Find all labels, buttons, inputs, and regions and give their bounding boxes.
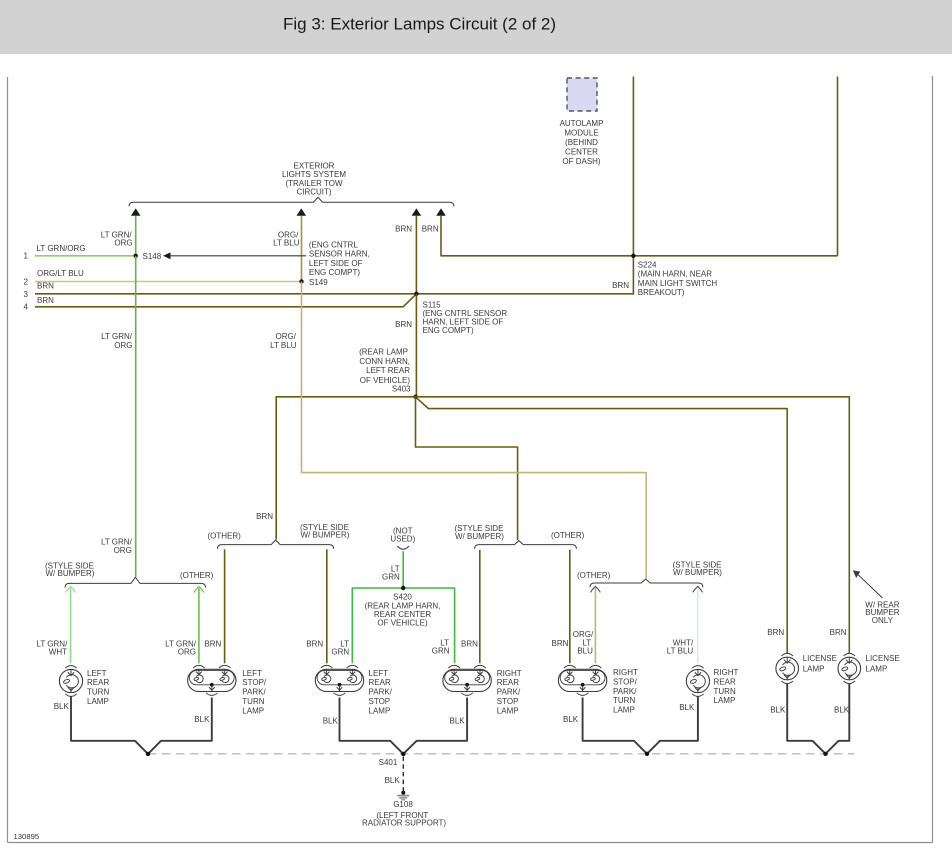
wire BRN: brace arrow down, corner east to S224 — [441, 216, 838, 256]
svg-text:BRN: BRN — [37, 282, 54, 291]
splice S148 — [134, 252, 162, 261]
svg-text:BRN: BRN — [395, 320, 412, 329]
svg-text:3: 3 — [24, 290, 29, 299]
wire LT GRN/ORG: brace arrow down to S148 — [135, 216, 137, 256]
svg-text:USED): USED) — [390, 534, 415, 543]
svg-text:BRN: BRN — [256, 512, 273, 521]
svg-text:BRN: BRN — [767, 628, 784, 637]
wire BRN: S403 second east leg to left license lamp — [417, 398, 787, 653]
svg-text:BLK: BLK — [385, 776, 401, 785]
label BLK lamp2 — [194, 715, 210, 724]
svg-text:LEFT: LEFT — [369, 669, 389, 678]
svg-text:LIGHTS SYSTEM: LIGHTS SYSTEM — [282, 170, 346, 179]
svg-text:LAMP: LAMP — [714, 696, 736, 705]
lamp: LEFT STOP/PARK/TURN LAMP — [188, 665, 267, 715]
svg-text:TURN: TURN — [613, 696, 635, 705]
splice S115 — [414, 292, 507, 335]
lamp: LEFT REAR TURN LAMP — [59, 666, 109, 706]
wire BRN: left brace to LEFT REAR PARK/STOP lamp — [326, 549, 328, 663]
wire line 2 ORG/LT BLU — [35, 269, 299, 281]
svg-text:RIGHT: RIGHT — [497, 669, 522, 678]
label LT GRN/ORG (vertical wire at S148) — [101, 231, 133, 248]
svg-text:REAR: REAR — [714, 677, 736, 686]
svg-text:SENSOR HARN,: SENSOR HARN, — [309, 250, 370, 259]
svg-text:LAMP: LAMP — [866, 665, 888, 674]
label BLK lamp1 — [54, 702, 70, 711]
svg-text:GRN: GRN — [432, 646, 450, 655]
arrow+wire WHT/LT BLU to RIGHT REAR TURN lamp — [693, 586, 703, 663]
label WHT/LT BLU (lamp6) — [667, 639, 694, 656]
label BRN (wire into left brace) — [256, 512, 273, 521]
svg-text:BRN: BRN — [422, 224, 439, 233]
wire ORG/LT BLU: S149 down, east, down to right brace — [302, 282, 647, 579]
svg-text:EXTERIOR: EXTERIOR — [294, 161, 335, 170]
svg-text:W/ BUMPER): W/ BUMPER) — [301, 530, 350, 539]
svg-text:BLK: BLK — [450, 716, 466, 725]
wire BRN: left brace to LEFT STOP/PARK/TURN lamp — [224, 549, 226, 663]
svg-text:ORG/: ORG/ — [276, 332, 297, 341]
wire BRN: S224 vertical (module area down to BRN bus line 3) — [632, 77, 634, 295]
lamp: RIGHT STOP/PARK/TURN LAMP — [558, 665, 638, 714]
svg-text:BRN: BRN — [830, 628, 847, 637]
svg-text:LAMP: LAMP — [613, 706, 635, 715]
BLK wires license lamps to junction — [787, 683, 849, 756]
svg-text:(ENG CNTRL: (ENG CNTRL — [309, 241, 358, 250]
arrow up into brace (LT GRN/ORG wire) — [131, 208, 141, 215]
svg-text:MAIN LIGHT SWITCH: MAIN LIGHT SWITCH — [638, 279, 718, 288]
lamp: LEFT REAR PARK/STOP LAMP — [315, 665, 392, 715]
svg-text:LAMP: LAMP — [87, 697, 109, 706]
svg-text:LT BLU: LT BLU — [273, 238, 300, 247]
svg-text:BRN: BRN — [204, 640, 221, 649]
arrow up into brace (ORG/LT BLU wire) — [297, 208, 307, 215]
label ORG/LT BLU (mid vertical) — [270, 332, 297, 350]
svg-text:2: 2 — [24, 277, 29, 286]
svg-text:Fig 3: Exterior Lamps Circuit: Fig 3: Exterior Lamps Circuit (2 of 2) — [283, 15, 556, 34]
label LT GRN (lamp3) — [331, 640, 349, 657]
label BRN (S115 to S403 wire) — [395, 320, 412, 329]
node 1 — [24, 252, 29, 261]
label BRN (S115 riser) — [395, 224, 412, 233]
brace: ORG/LT BLU split (OTHER / STYLE SIDE W BUMPER) — [577, 561, 722, 588]
arrow up into brace (BRN wire from S224) — [436, 208, 446, 215]
label ORG/LT BLU (vertical wire at S149) — [273, 231, 300, 248]
ground symbol G108 — [397, 791, 409, 800]
brace: EXTERIOR LIGHTS SYSTEM (TRAILER TOW CIRCUIT) — [129, 161, 454, 206]
svg-text:AUTOLAMP: AUTOLAMP — [560, 119, 604, 128]
node 2 — [24, 277, 29, 286]
node 3 — [24, 290, 29, 299]
title bar — [0, 0, 952, 54]
svg-text:130895: 130895 — [14, 832, 40, 841]
wire BRN: brace arrow down to S115 — [415, 216, 417, 294]
svg-text:REAR: REAR — [497, 678, 519, 687]
label BLK lamp6 — [679, 703, 695, 712]
svg-text:LAMP: LAMP — [242, 706, 264, 715]
wire line 1 LT GRN/ORG — [35, 244, 134, 256]
svg-text:LEFT SIDE OF: LEFT SIDE OF — [309, 259, 363, 268]
svg-text:REAR: REAR — [87, 678, 109, 687]
label (ENG CNTRL SENSOR HARN, LEFT SIDE OF ENG COMPT) for S149 — [309, 241, 370, 278]
svg-text:RADIATOR SUPPORT): RADIATOR SUPPORT) — [362, 819, 446, 828]
svg-text:S149: S149 — [309, 278, 328, 287]
svg-text:(TRAILER TOW: (TRAILER TOW — [285, 179, 342, 188]
svg-text:REAR: REAR — [369, 678, 391, 687]
svg-text:BLK: BLK — [323, 716, 339, 725]
svg-text:RIGHT: RIGHT — [714, 668, 739, 677]
svg-text:BLK: BLK — [834, 705, 850, 714]
arrow+wire LT GRN/WHT to LEFT REAR TURN lamp — [66, 587, 76, 664]
svg-text:ORG: ORG — [114, 546, 132, 555]
svg-text:LEFT: LEFT — [242, 669, 262, 678]
wire BRN: S403 west leg down to left brace — [276, 397, 415, 540]
svg-text:LEFT REAR: LEFT REAR — [366, 366, 410, 375]
svg-text:S401: S401 — [379, 758, 398, 767]
splice S403 (REAR LAMP CONN HARN, LEFT REAR OF VEHICLE) — [359, 347, 418, 399]
annotation arrow W/ REAR BUMPER ONLY — [853, 570, 900, 625]
svg-text:LICENSE: LICENSE — [866, 654, 900, 663]
svg-text:LT GRN/: LT GRN/ — [101, 332, 133, 341]
wire BRN: brace to RIGHT REAR PARK/STOP lamp — [479, 550, 481, 664]
svg-text:LICENSE: LICENSE — [803, 654, 837, 663]
label BRN (right license lamp) — [830, 628, 847, 637]
svg-text:BLU: BLU — [577, 647, 593, 656]
svg-text:PARK/: PARK/ — [613, 687, 637, 696]
lamp: RIGHT REAR PARK/STOP LAMP — [443, 665, 522, 715]
svg-text:BRN: BRN — [395, 224, 412, 233]
svg-text:CIRCUIT): CIRCUIT) — [296, 188, 331, 197]
svg-text:MODULE: MODULE — [564, 129, 598, 138]
svg-text:(REAR LAMP: (REAR LAMP — [359, 347, 408, 356]
label LT GRN (not used stub) — [382, 565, 400, 582]
arrow to S148 from eng cntrl sensor harn — [163, 252, 306, 259]
svg-text:S148: S148 — [143, 252, 162, 261]
svg-text:(OTHER): (OTHER) — [208, 532, 242, 541]
svg-text:W/ BUMPER): W/ BUMPER) — [455, 532, 504, 541]
svg-text:BLK: BLK — [194, 715, 210, 724]
svg-text:(OTHER): (OTHER) — [577, 571, 611, 580]
svg-text:G108: G108 — [393, 800, 413, 809]
svg-text:BLK: BLK — [679, 703, 695, 712]
svg-text:RIGHT: RIGHT — [613, 668, 638, 677]
label G108 (LEFT FRONT RADIATOR SUPPORT) — [362, 800, 446, 827]
brace: LEFT STOP lamp split (OTHER / STYLE SIDE W BUMPER) — [208, 523, 350, 549]
autolamp module (dashed box) — [560, 78, 604, 166]
wire BRN: S403 east leg to right license lamp — [416, 397, 850, 654]
svg-text:LT GRN/ORG: LT GRN/ORG — [37, 244, 86, 253]
svg-text:4: 4 — [24, 302, 29, 311]
svg-text:1: 1 — [24, 252, 29, 261]
wire line 3 BRN (to S115 and on to S224 drop) — [35, 282, 633, 294]
label LT GRN/ORG (above lower brace) — [101, 538, 133, 555]
wire LT GRN stub down to S420 — [402, 551, 404, 588]
label BLK license right — [834, 705, 850, 714]
svg-text:CENTER: CENTER — [565, 148, 598, 157]
svg-text:GRN: GRN — [382, 573, 400, 582]
splice S224 — [631, 254, 717, 298]
svg-text:LT BLU: LT BLU — [270, 341, 297, 350]
svg-text:ENG COMPT): ENG COMPT) — [423, 326, 474, 335]
svg-text:ENG COMPT): ENG COMPT) — [309, 268, 360, 277]
wire LT GRN: S420 cross to both park/stop lamps — [352, 588, 454, 663]
not used stub terminal — [390, 526, 415, 549]
svg-text:ORG: ORG — [114, 341, 132, 350]
wire line 4 BRN joining S115 — [35, 294, 416, 307]
svg-text:S224: S224 — [638, 260, 657, 269]
svg-text:BRN: BRN — [37, 296, 54, 305]
splice S420 (REAR LAMP HARN, REAR CENTER OF VEHICLE) — [365, 586, 441, 628]
svg-text:TURN: TURN — [714, 687, 736, 696]
brace: RIGHT REAR PARK lamp split (STYLE SIDE W BUMPER / OTHER) — [455, 524, 585, 549]
BLK wires lamps 3-4 to S401 — [340, 698, 468, 754]
brace: LT GRN split (STYLE SIDE W BUMPER / OTHER) — [45, 561, 214, 587]
dashed ground bus — [148, 753, 854, 755]
svg-text:ORG: ORG — [114, 238, 132, 247]
svg-text:BLK: BLK — [563, 715, 579, 724]
label BRN (left license lamp) — [767, 628, 784, 637]
svg-text:PARK/: PARK/ — [242, 688, 266, 697]
arrow+wire ORG/LT BLU to RIGHT STOP/PARK/TURN lamp — [591, 586, 601, 663]
wire BRN: S115 down to S403 — [415, 294, 417, 397]
svg-text:BLK: BLK — [54, 702, 70, 711]
svg-text:ORG/LT BLU: ORG/LT BLU — [37, 269, 84, 278]
wire LT GRN/ORG: S148 down to green brace — [135, 256, 137, 577]
label BLK (ground wire) — [385, 776, 401, 785]
svg-text:(OTHER): (OTHER) — [551, 531, 585, 540]
label LT GRN/ORG (lamp2) — [165, 640, 197, 657]
label BRN (below S224) — [612, 281, 629, 290]
label BRN (lamp2) — [204, 640, 221, 649]
svg-text:LAMP: LAMP — [369, 706, 391, 715]
label BRN (lamp3) — [306, 640, 323, 649]
label BRN (lamp5) — [552, 639, 569, 648]
label LT GRN/ORG (mid vertical) — [101, 332, 133, 350]
splice S401 — [379, 752, 406, 768]
svg-text:S420: S420 — [393, 592, 412, 601]
label ORG/LT BLU (lamp5) — [573, 630, 594, 655]
label BLK lamp5 — [563, 715, 579, 724]
BLK wires lamps 5-6 to junction — [583, 696, 698, 756]
svg-text:PARK/: PARK/ — [369, 688, 393, 697]
node 4 — [24, 302, 29, 311]
svg-text:WHT: WHT — [49, 648, 67, 657]
svg-text:OF VEHICLE): OF VEHICLE) — [377, 618, 428, 627]
svg-text:STOP/: STOP/ — [613, 677, 638, 686]
svg-text:OF DASH): OF DASH) — [562, 157, 601, 166]
svg-text:(MAIN HARN, NEAR: (MAIN HARN, NEAR — [638, 270, 712, 279]
splice S149 — [299, 278, 328, 287]
svg-text:STOP: STOP — [497, 697, 519, 706]
svg-text:BRN: BRN — [306, 640, 323, 649]
svg-text:(OTHER): (OTHER) — [180, 571, 214, 580]
svg-text:CONN HARN,: CONN HARN, — [359, 357, 410, 366]
svg-text:PARK/: PARK/ — [497, 688, 521, 697]
wire BRN: brace to RIGHT STOP/PARK/TURN lamp — [569, 550, 571, 664]
svg-text:STOP: STOP — [369, 697, 391, 706]
BLK dashed wire S401 to ground — [402, 757, 404, 792]
arrow up into brace (BRN wire from S115) — [412, 208, 422, 215]
svg-text:BRN: BRN — [552, 639, 569, 648]
label BLK lamp4 — [450, 716, 466, 725]
wire ORG/LT BLU: brace arrow down to S149 — [301, 216, 303, 282]
label LT GRN (lamp4) — [432, 639, 450, 656]
arrow+wire LT GRN/ORG to LEFT STOP/PARK/TURN lamp — [194, 587, 204, 664]
label BRN (lamp4) — [461, 640, 478, 649]
lamp: RIGHT REAR TURN LAMP — [686, 666, 738, 706]
svg-text:W/ BUMPER): W/ BUMPER) — [46, 569, 95, 578]
svg-text:ORG: ORG — [178, 648, 196, 657]
svg-text:LAMP: LAMP — [803, 665, 825, 674]
svg-text:BREAKOUT): BREAKOUT) — [638, 288, 685, 297]
lamp: LICENSE LAMP (right) — [838, 653, 900, 683]
wire BRN: right riser up from S224 bus — [837, 77, 839, 256]
svg-text:STOP/: STOP/ — [242, 678, 267, 687]
svg-text:S403: S403 — [392, 385, 411, 394]
lamp: LICENSE LAMP (left) — [776, 653, 837, 683]
svg-text:ONLY: ONLY — [872, 616, 894, 625]
svg-text:LAMP: LAMP — [497, 706, 519, 715]
label LT GRN/WHT — [36, 640, 68, 657]
svg-text:TURN: TURN — [87, 688, 109, 697]
label BLK lamp3 — [323, 716, 339, 725]
svg-text:LEFT: LEFT — [87, 669, 107, 678]
label BRN (S224 riser) — [422, 224, 439, 233]
svg-text:LT BLU: LT BLU — [667, 647, 694, 656]
svg-text:(BEHIND: (BEHIND — [565, 138, 598, 147]
svg-text:BRN: BRN — [461, 640, 478, 649]
svg-text:BRN: BRN — [612, 281, 629, 290]
drawing number 130895 — [14, 832, 40, 841]
wire BRN: S403 south leg to center brace — [416, 397, 518, 540]
svg-text:TURN: TURN — [242, 697, 264, 706]
label BLK license left — [770, 705, 786, 714]
svg-text:BLK: BLK — [770, 705, 786, 714]
svg-text:GRN: GRN — [331, 648, 349, 657]
svg-text:W/ BUMPER): W/ BUMPER) — [673, 568, 722, 577]
BLK wires lamps 1-2 to junction — [71, 696, 212, 756]
